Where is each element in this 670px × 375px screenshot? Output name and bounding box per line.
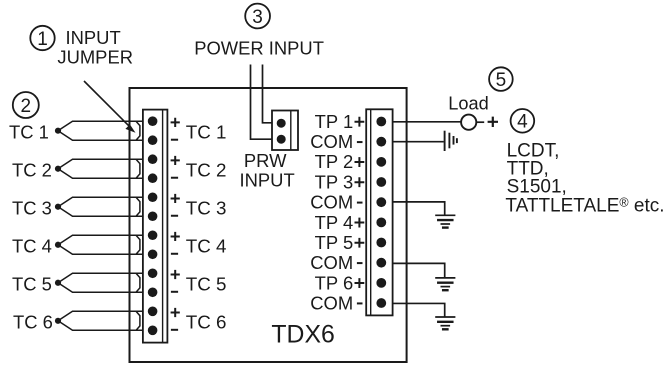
ground A bbox=[435, 214, 455, 216]
polarity - terminal TC 3 bbox=[171, 215, 178, 217]
svg-text:2: 2 bbox=[21, 96, 32, 117]
svg-text:TP 5: TP 5 bbox=[315, 232, 354, 253]
left strip terminal dot 9 bbox=[148, 268, 158, 278]
wire COM- (TP4/5) to ground B bbox=[393, 263, 445, 278]
TC 3 pair clamp bracket bbox=[136, 197, 140, 216]
svg-text:COM: COM bbox=[310, 192, 353, 213]
svg-text:TC 4: TC 4 bbox=[12, 236, 52, 257]
right strip terminal dot 6 (TP 4+) bbox=[376, 217, 386, 227]
svg-text:TC 6: TC 6 bbox=[186, 312, 227, 333]
svg-text:TP 2: TP 2 bbox=[315, 151, 354, 172]
svg-text:TATTLETALE® etc.: TATTLETALE® etc. bbox=[505, 196, 664, 217]
wire TC 6 + lead bbox=[58, 311, 143, 321]
wire COM- (TP2/3) to ground A bbox=[393, 202, 445, 215]
node TC 3 junction dot bbox=[55, 204, 61, 210]
right strip terminal dot 2 (COM-) bbox=[376, 137, 386, 147]
svg-text:TC 5: TC 5 bbox=[12, 274, 52, 295]
power input wire (right / positive) bbox=[263, 65, 273, 123]
TC 4 pair clamp bracket bbox=[136, 235, 140, 254]
polarity + terminal TC 2 bbox=[171, 156, 180, 165]
svg-text:3: 3 bbox=[252, 7, 263, 28]
callout circle 5 bbox=[489, 67, 513, 91]
TC 6 pair clamp bracket bbox=[136, 311, 140, 330]
wire TC 3 - lead bbox=[58, 207, 143, 217]
power input wire (left / negative) bbox=[251, 65, 273, 140]
ground B bbox=[435, 277, 455, 279]
callout circle 1 bbox=[30, 26, 54, 50]
left strip terminal dot 11 bbox=[148, 307, 158, 317]
left strip terminal dot 1 bbox=[148, 116, 158, 126]
svg-text:TC 4: TC 4 bbox=[186, 236, 227, 257]
left strip terminal dot 5 bbox=[148, 192, 158, 202]
wire load to + bbox=[476, 121, 484, 123]
wire COM- to signal ground bbox=[393, 141, 444, 143]
svg-text:INPUT: INPUT bbox=[66, 27, 121, 48]
left strip terminal dot 7 bbox=[148, 230, 158, 240]
left strip terminal dot 12 bbox=[148, 326, 158, 336]
wire TC 5 - lead bbox=[58, 283, 143, 293]
polarity + terminal TC 1 bbox=[171, 118, 180, 127]
svg-text:1: 1 bbox=[37, 29, 48, 50]
left strip terminal dot 10 bbox=[148, 287, 158, 297]
svg-text:TP 1: TP 1 bbox=[315, 111, 354, 132]
node TC 6 junction dot bbox=[55, 318, 61, 324]
svg-text:5: 5 bbox=[496, 70, 507, 91]
svg-text:POWER INPUT: POWER INPUT bbox=[194, 37, 324, 58]
left strip terminal dot 8 bbox=[148, 249, 158, 259]
svg-text:JUMPER: JUMPER bbox=[57, 46, 133, 67]
svg-text:TC 5: TC 5 bbox=[186, 274, 227, 295]
svg-text:TP 6: TP 6 bbox=[315, 272, 354, 293]
svg-text:COM: COM bbox=[310, 252, 353, 273]
svg-text:Load: Load bbox=[448, 94, 488, 114]
right strip terminal dot 7 (TP 5+) bbox=[376, 238, 386, 248]
PRW pin 1 bbox=[277, 119, 286, 128]
svg-text:COM: COM bbox=[310, 292, 353, 313]
polarity + terminal TC 6 bbox=[171, 308, 180, 317]
label receiver list bbox=[505, 141, 664, 217]
svg-text:TC 6: TC 6 bbox=[13, 312, 53, 333]
wire COM- (TP6) to ground C bbox=[393, 303, 445, 317]
ground C bbox=[435, 316, 455, 318]
wire TC 2 + lead bbox=[58, 159, 143, 169]
svg-text:TDX6: TDX6 bbox=[271, 321, 334, 348]
signal ground (rotated earth) bbox=[444, 131, 446, 151]
node TC 5 junction dot bbox=[55, 280, 61, 286]
right strip terminal dot 4 (TP 3+) bbox=[376, 177, 386, 187]
svg-text:TP 4: TP 4 bbox=[315, 212, 354, 233]
left strip terminal dot 2 bbox=[148, 135, 158, 145]
TC 2 pair clamp bracket bbox=[136, 159, 140, 178]
svg-text:PRW: PRW bbox=[244, 150, 287, 171]
node TC 4 junction dot bbox=[55, 242, 61, 248]
wire TC 1 - lead bbox=[58, 131, 143, 141]
PRW input connector J3 bbox=[272, 111, 298, 151]
polarity + after load bbox=[488, 117, 498, 127]
wire TC 1 + lead bbox=[58, 121, 143, 131]
right strip terminal dot 8 (COM-) bbox=[376, 258, 386, 268]
svg-text:COM: COM bbox=[310, 131, 353, 152]
svg-text:S1501,: S1501, bbox=[507, 177, 567, 198]
svg-text:TC 2: TC 2 bbox=[186, 160, 227, 181]
node TC 2 junction dot bbox=[55, 166, 61, 172]
wire TC 2 - lead bbox=[58, 169, 143, 179]
right strip terminal dot 1 (TP 1+) bbox=[376, 117, 386, 127]
input jumper pointer arrow bbox=[84, 81, 131, 128]
right terminal strip J2 (TP outputs) bbox=[366, 109, 392, 315]
left strip terminal dot 3 bbox=[148, 154, 158, 164]
polarity - terminal TC 2 bbox=[171, 177, 178, 179]
right strip terminal dot 5 (COM-) bbox=[376, 197, 386, 207]
wire TC 4 - lead bbox=[58, 245, 143, 255]
right strip terminal dot 10 (COM-) bbox=[376, 298, 386, 308]
load lamp bbox=[461, 115, 476, 130]
svg-text:TC 1: TC 1 bbox=[186, 122, 227, 143]
polarity + terminal TC 3 bbox=[171, 194, 180, 203]
TC 1 pair clamp bracket bbox=[136, 121, 140, 140]
wire TC 5 + lead bbox=[58, 273, 143, 283]
callout circle 3 bbox=[245, 4, 270, 29]
polarity - terminal TC 4 bbox=[171, 253, 178, 255]
callout circle 4 bbox=[511, 109, 535, 133]
svg-text:TC 1: TC 1 bbox=[9, 122, 49, 143]
svg-text:TC 2: TC 2 bbox=[12, 160, 52, 181]
left strip terminal dot 6 bbox=[148, 211, 158, 221]
left terminal strip J1 (TC inputs) bbox=[143, 110, 168, 343]
svg-text:4: 4 bbox=[517, 112, 528, 133]
wire TC 4 + lead bbox=[58, 235, 143, 245]
svg-text:TC 3: TC 3 bbox=[12, 198, 52, 219]
callout circle 2 bbox=[13, 92, 39, 118]
wire TC 6 - lead bbox=[58, 321, 143, 331]
polarity + terminal TC 5 bbox=[171, 270, 180, 279]
TC 5 pair clamp bracket bbox=[136, 273, 140, 292]
node TC 1 junction dot bbox=[55, 128, 61, 134]
polarity - terminal TC 1 bbox=[171, 139, 178, 141]
wire TC 3 + lead bbox=[58, 197, 143, 207]
PRW pin 2 bbox=[277, 135, 286, 144]
right strip terminal dot 9 (TP 6+) bbox=[376, 278, 386, 288]
svg-text:INPUT: INPUT bbox=[240, 169, 295, 190]
polarity + terminal TC 4 bbox=[171, 232, 180, 241]
wire TP1+ to load bbox=[393, 121, 462, 123]
svg-text:TC 3: TC 3 bbox=[186, 198, 227, 219]
polarity - terminal TC 5 bbox=[171, 291, 178, 293]
right strip terminal dot 3 (TP 2+) bbox=[376, 157, 386, 167]
left strip terminal dot 4 bbox=[148, 173, 158, 183]
svg-text:TP 3: TP 3 bbox=[315, 171, 354, 192]
device box U1 (TDX6 module outline) bbox=[130, 88, 407, 362]
polarity - terminal TC 6 bbox=[171, 329, 178, 331]
